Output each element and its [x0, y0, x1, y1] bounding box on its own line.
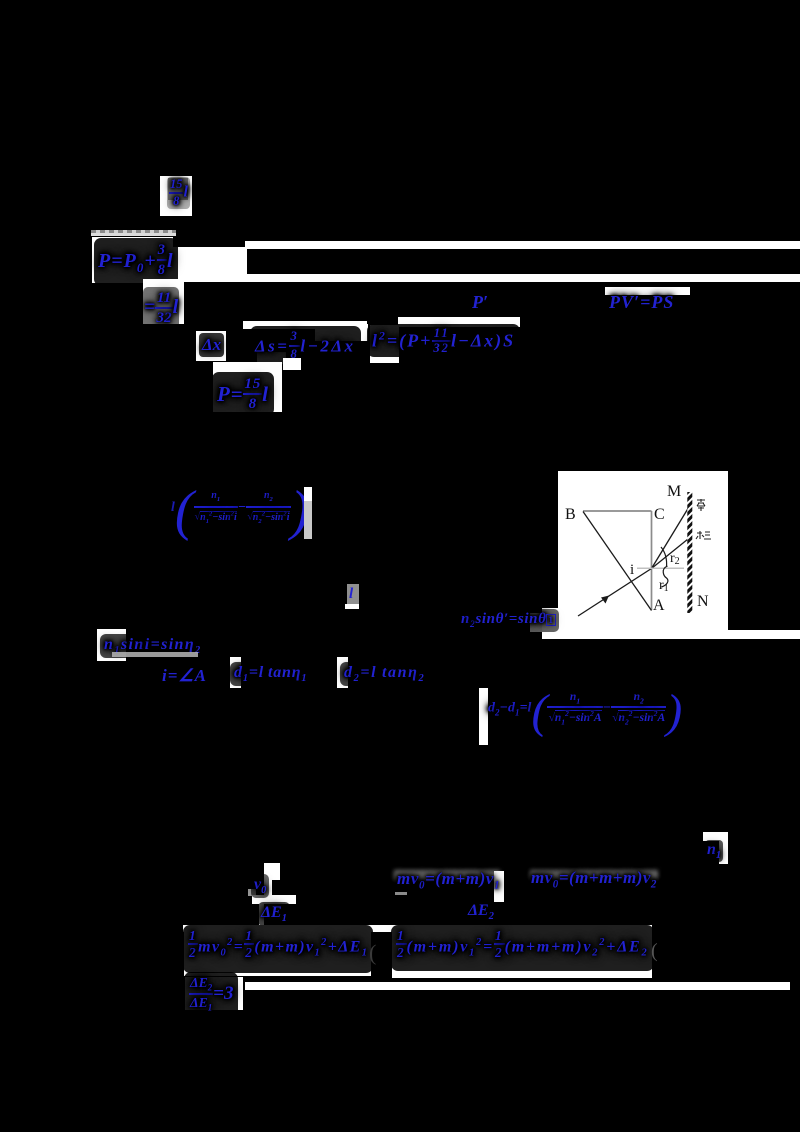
- formula dx: [199, 333, 224, 357]
- gray dash: [395, 892, 407, 895]
- svg-text:i: i: [630, 562, 634, 578]
- normal gray line: [637, 567, 684, 569]
- triangle top line BC: [583, 510, 652, 512]
- diagram bottom white strip: [542, 630, 800, 639]
- white left patch l2 formula: [370, 325, 399, 363]
- formula n2 sin = sin: [458, 609, 559, 632]
- formula = 11/32 l: [143, 287, 179, 329]
- white L top bar (n element): [703, 832, 728, 841]
- n glyph: [705, 840, 723, 862]
- white column v0 mid: [264, 880, 272, 896]
- diagram foot patch: [530, 613, 551, 632]
- long white strip above energy formulas: [183, 925, 652, 932]
- white column v0 top: [264, 863, 280, 880]
- squiggle r1: [662, 566, 668, 587]
- char hong (red): [696, 531, 711, 539]
- white bit right of P=15/8: [283, 358, 301, 370]
- gray paren after: [651, 940, 658, 963]
- fog behind mv0 formula 2: [530, 870, 658, 879]
- formula P = P0 + 3/8 l: [94, 238, 178, 286]
- formula 15/8 l: [167, 177, 190, 209]
- diagram white box: [558, 471, 728, 630]
- svg-text:M: M: [667, 483, 681, 500]
- formula mv0 = (m+m+m)v2: [531, 868, 657, 890]
- formula 15/8 l white patch: [160, 176, 192, 216]
- white column to strip: [259, 904, 264, 930]
- dE2 glyph mid: [468, 902, 494, 922]
- refracted ray red: [652, 539, 689, 569]
- svg-text:B: B: [565, 506, 576, 523]
- white patch P=15/8 l: [213, 362, 282, 412]
- white rect energy formula right: [392, 925, 652, 978]
- diagram: [520, 460, 800, 650]
- v0 glyph: [251, 874, 269, 898]
- gray vertical line: [304, 501, 312, 539]
- energy formula right: [391, 925, 654, 971]
- white bottom strip: [172, 274, 800, 282]
- refracted ray violet: [652, 509, 689, 569]
- white rect ratio formula: [185, 977, 243, 1010]
- white patch around P formula: [92, 237, 173, 283]
- formula i = angle A: [162, 666, 207, 686]
- big formula d2-d1: [488, 684, 682, 739]
- energy formula left: [183, 925, 373, 973]
- white cursor rect: [304, 487, 312, 501]
- white sliver d2: [337, 657, 348, 688]
- white strip above l2 formula: [398, 317, 520, 327]
- gray streak under n1 formula: [112, 652, 198, 657]
- white right bit ds formula: [315, 324, 368, 341]
- white sliver d1: [230, 657, 241, 688]
- white L right column: [719, 840, 728, 864]
- gray underline strip: [91, 230, 176, 236]
- long white strip bottom: [245, 982, 790, 990]
- svg-text:N: N: [697, 593, 709, 610]
- white top strip: [245, 241, 800, 249]
- formula ds = 3/8 l - 2dx: [250, 326, 361, 366]
- big fraction formula left: [171, 479, 309, 543]
- dE1 glyph: [258, 902, 290, 926]
- svg-text:A: A: [653, 597, 665, 614]
- P prime: [472, 292, 488, 313]
- svg-text:C: C: [654, 506, 665, 523]
- formula 15/8 l gray inner: [168, 178, 188, 200]
- white below bit ds formula: [257, 352, 286, 364]
- arc r2: [661, 547, 667, 567]
- white mid block: [172, 247, 247, 276]
- char zi (violet): [697, 499, 705, 511]
- ratio formula: [184, 972, 238, 1017]
- white patch dx: [196, 331, 226, 361]
- white patch 11/32 formula: [143, 279, 184, 324]
- white patch right of n2 formula: [542, 608, 560, 636]
- white column left of big formula: [479, 688, 488, 745]
- white sliver between: [494, 871, 504, 902]
- gray patch left of v0: [248, 889, 256, 896]
- white rect energy formula left: [184, 925, 371, 976]
- white patch left of n1 formula: [97, 629, 126, 661]
- gray patch l glyph: [347, 584, 359, 604]
- formula d2 = l tan r2: [340, 662, 429, 686]
- triangle right line CA: [651, 511, 653, 610]
- l glyph: [349, 586, 353, 603]
- formula d1 = l tan r1: [230, 662, 311, 686]
- white bit under l glyph: [345, 604, 359, 609]
- dark paren between: [369, 940, 376, 966]
- formula P = 15/8 l: [212, 372, 274, 416]
- fog behind mv0 formula 1: [394, 870, 500, 880]
- triangle hypotenuse BA: [583, 512, 652, 611]
- wall hatched: [687, 492, 692, 613]
- white strip above ds formula: [243, 321, 367, 329]
- formula mv0 = (m+m)v1: [397, 869, 500, 891]
- incident ray: [578, 569, 652, 617]
- formula PV' = PS: [609, 292, 674, 313]
- ray arrowhead: [601, 596, 609, 604]
- white strip above PS formula: [605, 287, 690, 295]
- white bar under v0: [252, 895, 296, 904]
- formula l2 = (P + 11/32 l - dx)S: [367, 324, 520, 357]
- formula n1 sin i = sin r: [100, 634, 206, 658]
